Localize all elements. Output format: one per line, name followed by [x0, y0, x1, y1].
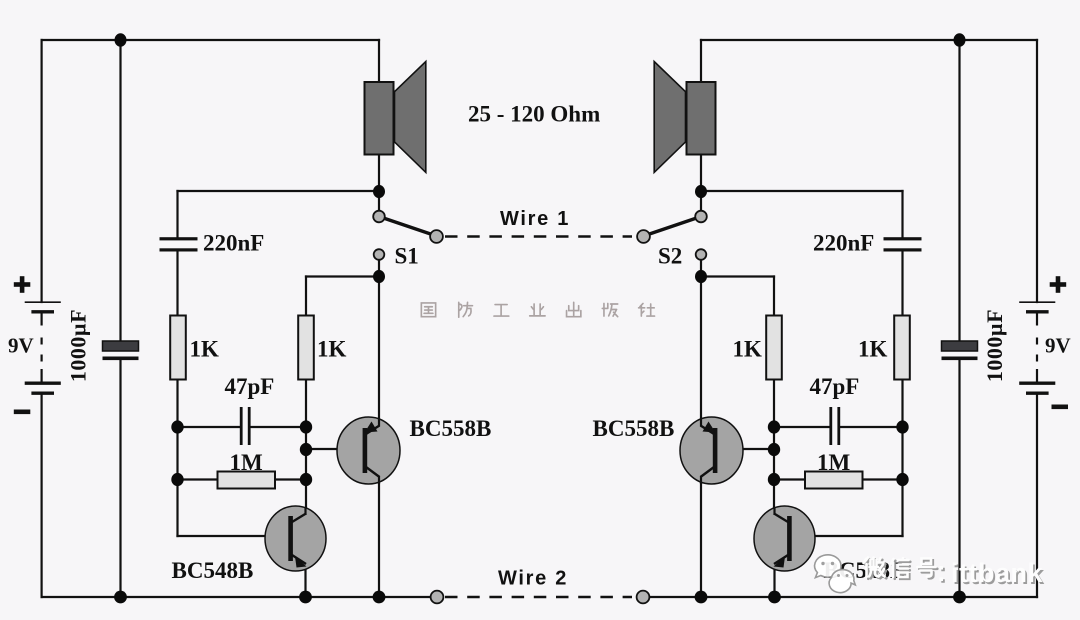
svg-text:220nF: 220nF [813, 231, 874, 256]
svg-text:1K: 1K [317, 337, 347, 362]
svg-text:BC558B: BC558B [593, 416, 675, 441]
svg-text:1000µF: 1000µF [66, 309, 91, 382]
svg-text:S1: S1 [395, 244, 419, 269]
svg-text:1M: 1M [817, 450, 851, 475]
svg-text:25 - 120 Ohm: 25 - 120 Ohm [468, 102, 600, 127]
svg-text:47pF: 47pF [810, 374, 860, 399]
svg-text:1K: 1K [733, 337, 763, 362]
svg-text:Wire 1: Wire 1 [500, 208, 570, 230]
svg-text:ittbank: ittbank [951, 558, 1043, 588]
svg-text:BC558B: BC558B [410, 416, 492, 441]
svg-text:47pF: 47pF [225, 374, 275, 399]
svg-text:220nF: 220nF [203, 231, 264, 256]
svg-text:9V: 9V [1045, 334, 1071, 358]
svg-text:1K: 1K [190, 337, 220, 362]
svg-text:S2: S2 [658, 244, 682, 269]
svg-text:1M: 1M [230, 450, 264, 475]
svg-text:1K: 1K [858, 337, 888, 362]
svg-text:9V: 9V [8, 334, 34, 358]
svg-text:BC548B: BC548B [172, 558, 254, 583]
svg-text:1000µF: 1000µF [982, 309, 1007, 382]
svg-text:Wire 2: Wire 2 [498, 568, 568, 590]
